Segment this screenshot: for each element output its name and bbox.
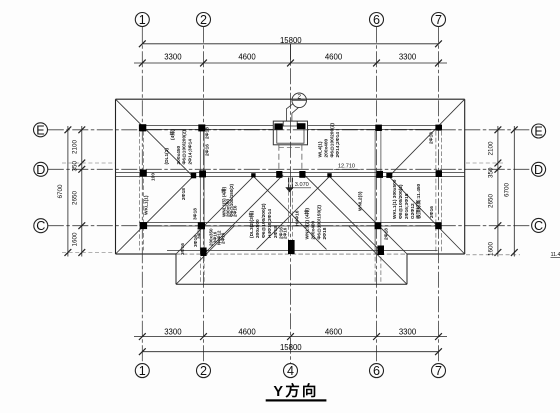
svg-text:1600: 1600: [71, 232, 78, 247]
rebar 2d16 near axis2: [205, 144, 211, 156]
svg-text:2Φ18: 2Φ18: [181, 188, 187, 200]
rebar 2d16 right block: [429, 206, 435, 218]
svg-text:4600: 4600: [238, 53, 256, 62]
grid bubble E right: [532, 124, 546, 138]
svg-text:Φ6@100/200(2): Φ6@100/200(2): [329, 123, 335, 158]
rebar 2d16 center small: [283, 227, 288, 239]
svg-text:15800: 15800: [280, 343, 302, 352]
grid line axis 6 vertical: [376, 27, 378, 363]
column axis6/E: [375, 125, 382, 131]
svg-text:WKL1(1) 300x500: WKL1(1) 300x500: [392, 179, 398, 219]
stair bay outer wall: [273, 121, 307, 145]
rebar 3d18 near axis2 mid: [193, 208, 199, 220]
svg-text:2650: 2650: [71, 190, 78, 205]
beam along axis 6 vertical edges: [374, 131, 376, 250]
svg-text:4600: 4600: [325, 328, 343, 337]
svg-text:G2Φ12: G2Φ12: [410, 203, 416, 219]
column axis1/D: [140, 170, 147, 177]
grid bubble 1 bottom: [135, 364, 149, 378]
svg-text:2650: 2650: [487, 193, 494, 208]
svg-text:WL4(1): WL4(1): [318, 141, 324, 157]
svg-text:2Φ18: 2Φ18: [429, 132, 435, 144]
grid bubble C right: [532, 218, 546, 232]
svg-text:Φ6@100/150(2): Φ6@100/150(2): [316, 205, 322, 240]
svg-text:200x400: 200x400: [324, 138, 330, 157]
hip bottom-right: [389, 176, 465, 254]
svg-text:3300: 3300: [164, 53, 182, 62]
svg-text:2100: 2100: [487, 141, 494, 156]
beam label 200x350 group: [209, 228, 226, 246]
svg-text:(4排): (4排): [169, 129, 176, 140]
valley left from step corner: [176, 176, 254, 254]
svg-text:2Φ16: 2Φ16: [205, 144, 211, 156]
grid bubble 2 bottom: [197, 364, 211, 378]
hip bottom-left: [116, 176, 194, 254]
svg-text:D: D: [36, 163, 45, 177]
svg-text:2Φ16: 2Φ16: [221, 232, 226, 244]
svg-text:11.4: 11.4: [551, 252, 560, 258]
column bay-right/D: [299, 171, 305, 178]
svg-text:(DL1(2): (DL1(2): [164, 148, 170, 165]
column bay-left/D: [276, 171, 282, 178]
column axis1/E: [139, 124, 146, 131]
ridge junction right: [386, 173, 392, 178]
grid line axis 7 vertical: [438, 27, 440, 363]
svg-text:2Φ16: 2Φ16: [232, 205, 237, 217]
left extension lines: [62, 162, 115, 164]
column axis2/D: [199, 170, 206, 177]
svg-text:2Φ18: 2Φ18: [383, 228, 389, 240]
section callout leader: [286, 104, 293, 122]
beam label WL4(1) group: [318, 123, 341, 158]
axis 4 beam stub below D: [288, 178, 290, 188]
svg-text:(DL3(2)(3排): (DL3(2)(3排): [248, 210, 255, 238]
grid bubble D right: [532, 162, 546, 176]
svg-text:6700: 6700: [503, 182, 510, 197]
svg-text:Φ6@100/200(2): Φ6@100/200(2): [261, 203, 267, 238]
projection bottom eave: [176, 283, 407, 285]
hip top-right: [389, 99, 465, 176]
column axis6/D: [376, 171, 383, 178]
valley right inner long: [304, 174, 384, 254]
valley vertex left: [251, 173, 255, 177]
ridge diagonal right-center down: [257, 176, 330, 249]
svg-text:7: 7: [435, 13, 442, 27]
rebar 3d18 below C left: [197, 227, 203, 239]
svg-text:WKL1(1): WKL1(1): [144, 195, 150, 215]
beam along axis D lower edge (ridge): [116, 175, 465, 177]
projection hip right extended: [349, 226, 407, 284]
column axis1/C: [140, 222, 147, 229]
svg-text:H4Φ10;2Φ14: H4Φ10;2Φ14: [267, 209, 273, 238]
column axis2/bottom wall: [200, 248, 206, 257]
svg-text:350: 350: [71, 160, 78, 171]
roof eave outline top: [116, 98, 465, 100]
rebar 3d16 below C left b: [193, 235, 199, 247]
svg-text:2100: 2100: [71, 139, 78, 154]
grid line axis E horizontal: [48, 129, 531, 131]
stair bay inner wall: [277, 126, 304, 143]
right extension lines: [466, 162, 504, 164]
grid line axis C horizontal: [48, 225, 531, 227]
svg-text:200x500: 200x500: [255, 219, 261, 238]
roof eave bottom right segment: [407, 253, 465, 255]
rebar 2d18 near axis7 top: [429, 132, 435, 144]
svg-text:200x400: 200x400: [311, 220, 317, 239]
stair bay corner column right: [297, 123, 306, 129]
svg-text:2Φ16: 2Φ16: [283, 227, 288, 239]
projection left edge: [175, 254, 177, 284]
svg-text:3300: 3300: [399, 53, 417, 62]
svg-text:Φ6@100/200(2): Φ6@100/200(2): [182, 130, 188, 165]
svg-text:C: C: [36, 219, 45, 233]
bottom wall beam upper edge: [167, 249, 438, 251]
column axis2/C: [198, 222, 205, 229]
beam label WNL3(2) group: [304, 205, 328, 240]
column axis4/bottom wall: [288, 240, 295, 254]
svg-text:2Φ18: 2Φ18: [273, 226, 279, 238]
column axis6/C: [375, 222, 382, 229]
valley right from step corner: [330, 176, 408, 254]
rebar 2d18 right of axis6 bottom: [383, 228, 389, 240]
roof eave left: [115, 99, 117, 254]
beam along axis 4 vertical edges: [287, 178, 289, 251]
rebar 2d18 left of valley: [181, 188, 187, 200]
rebar 2d18 near axis2 top: [205, 127, 211, 139]
beam along axis E lower edge: [139, 128, 273, 130]
grid bubble D left: [34, 162, 48, 176]
grid bubble 7 bottom: [432, 364, 446, 378]
svg-text:3Φ18: 3Φ18: [197, 227, 203, 239]
svg-text:12.710: 12.710: [338, 164, 355, 170]
svg-text:2Φ16: 2Φ16: [429, 206, 435, 218]
valley left inner long: [204, 175, 283, 254]
svg-text:2Φ18: 2Φ18: [205, 127, 211, 139]
projection right edge: [406, 254, 408, 284]
svg-text:3Φ18: 3Φ18: [193, 208, 199, 220]
grid bubble 1 top: [135, 13, 149, 27]
svg-text:3.070: 3.070: [295, 182, 309, 188]
svg-text:D: D: [534, 163, 543, 177]
rebar 3d16 below C left a: [180, 243, 186, 255]
beam label WNL2(3): [358, 191, 364, 211]
ridge diagonal left-center down: [254, 176, 327, 249]
beam label DL3(2) group: [248, 203, 285, 239]
svg-text:100: 100: [151, 173, 157, 181]
beam along axis 7 vertical edges: [435, 131, 437, 252]
left dimension detail line: [81, 126, 83, 257]
dimension line 15800 bottom: [142, 351, 438, 353]
svg-text:4600: 4600: [325, 53, 343, 62]
right dimension line 6700: [513, 126, 515, 257]
svg-text:2: 2: [200, 13, 207, 27]
beam label WNL1(5) group: [221, 184, 238, 217]
dimension line 15800 top: [142, 43, 438, 45]
beam label DL1(2) group: [164, 129, 193, 165]
svg-text:3300: 3300: [399, 328, 417, 337]
dimension line segments bottom: [134, 336, 447, 338]
grid bubble 4 bottom: [284, 364, 298, 378]
beam along axis C upper edge: [139, 222, 442, 224]
beam label WKL1(1) right group: [392, 179, 422, 219]
svg-text:2Φ14;3Φ14: 2Φ14;3Φ14: [188, 139, 194, 165]
svg-text:2: 2: [297, 94, 301, 101]
column axis7/D: [436, 170, 442, 177]
stair bay door jambs: [282, 121, 284, 126]
svg-text:2Φ18: 2Φ18: [322, 227, 328, 239]
svg-text:3Φ16: 3Φ16: [180, 243, 186, 255]
svg-text:3300: 3300: [164, 328, 182, 337]
stair bay lower walls hidden: [278, 145, 280, 174]
grid bubble E left: [34, 123, 48, 137]
svg-text:6700: 6700: [57, 184, 64, 199]
beam label WKL1(1) left: [144, 195, 150, 215]
svg-text:板顶标高:11.450: 板顶标高:11.450: [415, 183, 422, 219]
grid line axis 4 vertical: [290, 44, 292, 363]
hip top-left: [116, 99, 194, 176]
beam along axis E upper edge: [139, 124, 273, 126]
stair bay corner column left: [274, 123, 282, 129]
grid bubble C left: [34, 219, 48, 233]
beam along axis C lower edge: [139, 225, 442, 227]
grid bubble 2 top: [197, 13, 211, 27]
svg-text:350: 350: [487, 167, 494, 178]
column axis2/E: [198, 124, 205, 131]
column axis7/E: [435, 125, 442, 131]
svg-text:Φ8@100/200(2): Φ8@100/200(2): [398, 184, 404, 219]
svg-text:7: 7: [435, 364, 442, 378]
left dimension line 6700: [67, 126, 69, 257]
svg-text:6: 6: [373, 13, 380, 27]
roof eave bottom left segment: [116, 253, 177, 255]
svg-text:4600: 4600: [238, 328, 256, 337]
svg-text:2Φ16;3Φ18: 2Φ16;3Φ18: [404, 193, 410, 219]
column axis6/bottom wall: [377, 246, 384, 256]
beam along axis 1 vertical edges: [139, 125, 141, 250]
svg-text:2Φ14;2Φ14: 2Φ14;2Φ14: [335, 132, 341, 158]
grid bubble 7 top: [432, 13, 446, 27]
label 100 near axis1/D: [151, 173, 157, 181]
ridge junction left: [191, 173, 196, 178]
right dimension detail line: [497, 126, 499, 257]
dimension line segments top: [134, 62, 447, 64]
beam along axis 2 vertical edges: [199, 131, 201, 250]
svg-text:1: 1: [139, 364, 146, 378]
rebar H4d16 center: [295, 210, 301, 226]
svg-text:2: 2: [200, 364, 207, 378]
svg-text:WNL2(3): WNL2(3): [358, 191, 364, 211]
svg-text:4: 4: [287, 364, 294, 378]
beam along axis D upper edge: [116, 172, 465, 174]
section callout circle 2: [292, 93, 307, 108]
projection hip left extended: [176, 226, 234, 284]
svg-text:E: E: [36, 123, 44, 137]
svg-text:H4Φ16: H4Φ16: [295, 210, 301, 226]
valley vertex right: [327, 173, 331, 177]
grid line axis D horizontal: [48, 168, 531, 170]
svg-text:E: E: [534, 124, 542, 138]
grid bubble 6 bottom: [370, 364, 384, 378]
svg-text:1: 1: [139, 13, 146, 27]
svg-text:WNL3(2) (4排): WNL3(2) (4排): [304, 208, 311, 240]
svg-text:Y方向: Y方向: [273, 382, 318, 400]
svg-text:15800: 15800: [280, 36, 302, 45]
grid bubble 6 top: [370, 13, 384, 27]
svg-text:1600: 1600: [487, 241, 494, 256]
column axis7/C: [435, 222, 442, 229]
svg-text:200x450: 200x450: [176, 145, 182, 164]
svg-text:6: 6: [373, 364, 380, 378]
bottom wall beam hidden line: [176, 253, 407, 255]
grid line axis 1 vertical: [141, 27, 143, 363]
grid line axis 2 vertical: [203, 27, 205, 363]
svg-text:C: C: [534, 219, 543, 233]
roof eave right: [464, 99, 466, 254]
